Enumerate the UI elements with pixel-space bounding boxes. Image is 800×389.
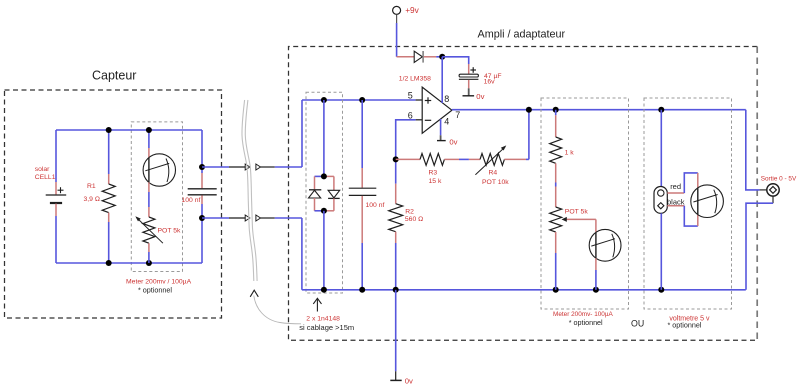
svg-text:* optionnel: * optionnel bbox=[138, 286, 172, 295]
junction supply node bbox=[439, 54, 445, 60]
wire capteur bottom rail bbox=[56, 262, 202, 264]
wire voltmeter branch upper bbox=[660, 110, 662, 187]
cable squiggle lines bbox=[242, 100, 257, 281]
wire 0v drop bbox=[395, 290, 397, 372]
ground 0v (47uF) bbox=[463, 88, 475, 96]
svg-text:POT 5k: POT 5k bbox=[565, 209, 589, 216]
junction pin5 cap branch bbox=[359, 97, 365, 103]
svg-text:R2: R2 bbox=[405, 208, 414, 215]
svg-text:1 k: 1 k bbox=[565, 150, 575, 157]
op-amp U1 1/2 LM358 bbox=[422, 87, 452, 133]
wire pin8 supply bbox=[441, 57, 443, 103]
svg-text:R1: R1 bbox=[87, 183, 96, 190]
svg-text:R4: R4 bbox=[489, 170, 498, 177]
svg-text:2 x 1n4148: 2 x 1n4148 bbox=[306, 316, 340, 323]
junction pin5 diode branch bbox=[321, 97, 327, 103]
svg-text:7: 7 bbox=[455, 110, 460, 120]
optional meter dashed box (capteur) bbox=[131, 122, 182, 272]
svg-text:3,9 Ω: 3,9 Ω bbox=[84, 196, 100, 203]
svg-text:Meter 200mv- 100µA: Meter 200mv- 100µA bbox=[553, 311, 614, 318]
svg-text:0v: 0v bbox=[449, 138, 457, 147]
optional meter dashed box (ampli) bbox=[541, 98, 629, 309]
resistor R3 15k bbox=[396, 154, 459, 166]
svg-text:* optionnel: * optionnel bbox=[569, 318, 603, 327]
svg-text:0v: 0v bbox=[405, 376, 413, 385]
junction capteur cap top bbox=[199, 164, 205, 170]
junction pin6 node bbox=[393, 156, 399, 162]
wire cable bottom (capteur to ampli) bbox=[202, 217, 302, 219]
wiper wire to meter M2 bbox=[562, 217, 596, 232]
ground 0v (pin4) bbox=[437, 135, 446, 140]
label R3 15k bbox=[429, 170, 442, 186]
diode D2 (1n4148 up) bbox=[309, 176, 322, 210]
potentiometer POT 5k (capteur) bbox=[135, 207, 163, 263]
junction capteur bottom R1 bbox=[106, 260, 112, 266]
wire pin6 input line bbox=[416, 119, 423, 121]
svg-text:Ampli / adaptateur: Ampli / adaptateur bbox=[478, 29, 566, 41]
label R2 560 ohm bbox=[405, 208, 423, 223]
enclosure box Capteur bbox=[5, 90, 222, 318]
svg-text:Capteur: Capteur bbox=[92, 69, 136, 83]
potentiometer R4 POT 10k bbox=[469, 145, 529, 174]
wire diode branch lower bbox=[323, 211, 325, 290]
svg-text:100 nf: 100 nf bbox=[366, 202, 385, 209]
optional voltmeter dashed box bbox=[644, 98, 732, 309]
diode clamp dashed box bbox=[306, 92, 343, 293]
svg-text:8: 8 bbox=[444, 94, 449, 104]
capacitor 100nf (ampli) bbox=[349, 100, 377, 290]
wire pin5 riser bbox=[301, 100, 303, 167]
junction capteur top meter bbox=[146, 127, 152, 133]
terminal Sortie bbox=[760, 184, 780, 204]
wire supply to cap bbox=[442, 57, 469, 64]
potentiometer POT 5k (ampli) bbox=[550, 187, 562, 290]
svg-text:1/2 LM358: 1/2 LM358 bbox=[399, 76, 431, 83]
svg-text:POT 5k: POT 5k bbox=[158, 228, 182, 235]
enclosure box Ampli / adaptateur bbox=[289, 47, 758, 341]
connector block voltmeter bbox=[654, 187, 667, 214]
wire feedback riser bbox=[528, 110, 530, 160]
solar cell CELL1 bbox=[46, 130, 66, 263]
svg-text:R3: R3 bbox=[429, 170, 438, 177]
junction diode pair bottom bbox=[321, 208, 327, 214]
wire sortie return bbox=[746, 203, 773, 290]
svg-text:0v: 0v bbox=[476, 92, 484, 101]
svg-text:CELL1: CELL1 bbox=[35, 174, 56, 181]
connector arrow bottom pair bbox=[245, 215, 260, 221]
diode D1 (supply) bbox=[397, 51, 443, 63]
wire feedback mid segment bbox=[459, 158, 469, 160]
junction capteur top R1 bbox=[106, 127, 112, 133]
wire voltmeter branch lower bbox=[660, 213, 662, 289]
junction bus diode branch bbox=[321, 287, 327, 293]
meter M1 (capteur optional) bbox=[143, 130, 175, 207]
junction bus voltmeter branch bbox=[658, 287, 664, 293]
label solar CELL1 bbox=[35, 166, 56, 181]
svg-text:OU: OU bbox=[631, 318, 644, 328]
svg-text:+9v: +9v bbox=[405, 5, 419, 15]
wire output line pin7 bbox=[452, 109, 746, 111]
wire +9V drop bbox=[396, 23, 398, 57]
wire pin4 ground bbox=[440, 119, 442, 135]
svg-text:16v: 16v bbox=[484, 79, 496, 86]
svg-text:POT 10k: POT 10k bbox=[482, 179, 509, 186]
label R1 3,9 ohm bbox=[84, 183, 100, 203]
arrow marker at cable bbox=[250, 290, 258, 297]
meter M3 voltmeter bbox=[691, 185, 724, 218]
junction bus meter box bbox=[553, 287, 559, 293]
svg-text:4: 4 bbox=[444, 117, 449, 127]
wire bottom bus 0v bbox=[302, 289, 746, 291]
ground 0v main bbox=[390, 371, 401, 380]
arrow to diode box bbox=[313, 298, 321, 311]
meter M2 (ampli optional) bbox=[589, 229, 621, 289]
label 47uF 16v bbox=[484, 73, 502, 86]
junction feedback bbox=[526, 107, 532, 113]
wire diode branch upper bbox=[323, 100, 325, 176]
junction capteur cap bottom bbox=[199, 215, 205, 221]
svg-text:5: 5 bbox=[408, 90, 413, 100]
wire black terminal to meter M3 bbox=[667, 206, 698, 226]
wire pin5 input line bbox=[302, 99, 416, 101]
wire diode top bracket bbox=[315, 175, 334, 177]
junction bus cap branch bbox=[359, 287, 365, 293]
label R4 POT 10k bbox=[482, 170, 509, 187]
terminal +9V bbox=[393, 6, 401, 23]
resistor R5 1k bbox=[550, 110, 562, 187]
svg-text:100 nf: 100 nf bbox=[182, 197, 201, 204]
svg-text:* optionnel: * optionnel bbox=[668, 320, 702, 329]
diode D3 (1n4148 down) bbox=[328, 176, 340, 210]
capacitor 100nf (capteur) bbox=[188, 130, 217, 263]
wire cable top (capteur to ampli) bbox=[202, 166, 302, 168]
svg-text:15 k: 15 k bbox=[429, 178, 442, 185]
resistor R1 bbox=[102, 130, 115, 263]
svg-text:si cablage >15m: si cablage >15m bbox=[299, 323, 354, 332]
svg-text:560 Ω: 560 Ω bbox=[405, 216, 423, 223]
capacitor C1 47uF bbox=[459, 64, 479, 88]
junction meter branch top bbox=[553, 107, 559, 113]
junction diode pair top bbox=[321, 173, 327, 179]
junction bus meter branch bbox=[593, 287, 599, 293]
svg-text:solar: solar bbox=[35, 166, 50, 173]
svg-text:red: red bbox=[670, 182, 681, 191]
junction bus R2 branch bbox=[393, 287, 399, 293]
wire capteur top rail bbox=[56, 129, 202, 131]
wire ground riser (cable to bus) bbox=[301, 218, 303, 290]
junction capteur bottom meter bbox=[146, 260, 152, 266]
svg-text:Sortie 0 - 5V: Sortie 0 - 5V bbox=[761, 176, 797, 183]
junction voltmeter branch top bbox=[658, 107, 664, 113]
resistor R2 560 bbox=[389, 159, 403, 289]
connector arrow top pair bbox=[245, 164, 260, 170]
pointer curve cable to note bbox=[254, 296, 301, 324]
wire diode bottom bracket bbox=[315, 210, 334, 212]
svg-text:Meter 200mv / 100µA: Meter 200mv / 100µA bbox=[126, 278, 192, 285]
wire output to sortie bbox=[746, 110, 760, 190]
wire red terminal to meter M3 bbox=[667, 173, 698, 193]
